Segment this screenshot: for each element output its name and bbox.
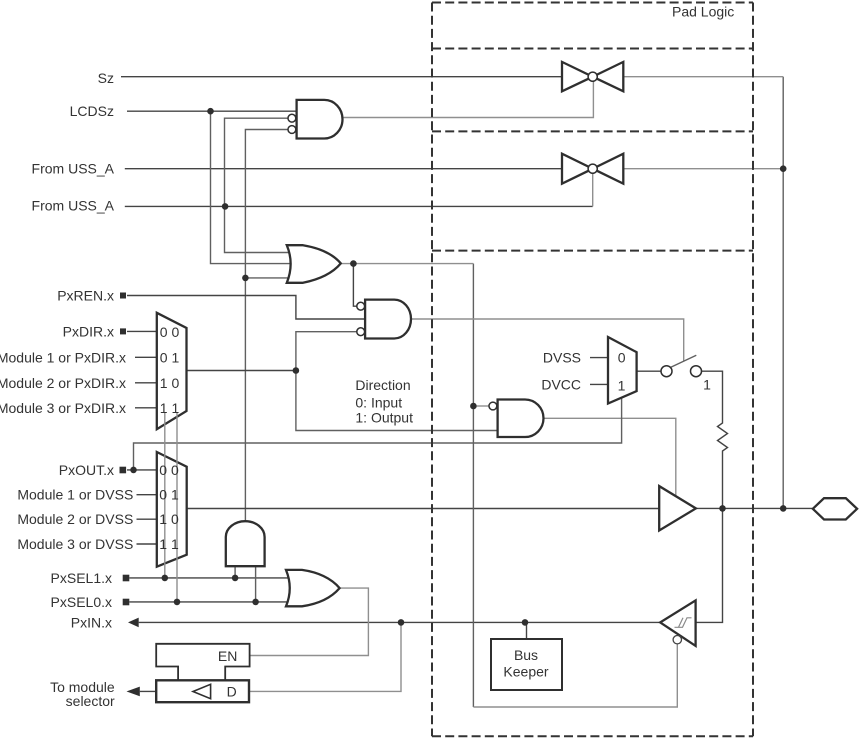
svg-text:1: 1	[703, 377, 711, 393]
svg-text:0 1: 0 1	[160, 350, 180, 366]
svg-text:1 0: 1 0	[160, 375, 180, 391]
svg-text:D: D	[227, 683, 237, 699]
svg-text:0 0: 0 0	[160, 324, 180, 340]
svg-text:0 1: 0 1	[159, 487, 179, 503]
svg-text:PxSEL1.x: PxSEL1.x	[51, 570, 112, 586]
svg-text:Module 2 or DVSS: Module 2 or DVSS	[17, 511, 133, 527]
svg-text:Module 3 or DVSS: Module 3 or DVSS	[17, 536, 133, 552]
svg-text:0 0: 0 0	[159, 462, 179, 478]
svg-text:From USS_A: From USS_A	[32, 198, 115, 214]
svg-text:DVCC: DVCC	[541, 376, 581, 392]
svg-text:1: Output: 1: Output	[355, 409, 413, 425]
svg-text:Sz: Sz	[98, 70, 114, 86]
svg-text:Direction: Direction	[355, 377, 410, 393]
svg-text:PxIN.x: PxIN.x	[71, 614, 112, 630]
svg-text:DVSS: DVSS	[543, 350, 581, 366]
svg-text:0: 0	[618, 350, 626, 366]
svg-text:1 0: 1 0	[159, 511, 179, 527]
svg-text:PxDIR.x: PxDIR.x	[63, 323, 114, 339]
svg-text:PxREN.x: PxREN.x	[57, 288, 114, 304]
svg-text:0: Input: 0: Input	[355, 395, 402, 411]
svg-text:EN: EN	[218, 648, 237, 664]
svg-text:PxOUT.x: PxOUT.x	[59, 462, 114, 478]
svg-text:selector: selector	[66, 693, 115, 709]
svg-text:Keeper: Keeper	[503, 664, 548, 680]
svg-text:1 1: 1 1	[159, 536, 179, 552]
svg-text:Pad Logic: Pad Logic	[672, 4, 734, 20]
svg-text:Module 2 or PxDIR.x: Module 2 or PxDIR.x	[0, 375, 126, 391]
svg-text:From USS_A: From USS_A	[32, 161, 115, 177]
svg-text:LCDSz: LCDSz	[70, 103, 114, 119]
svg-text:1: 1	[618, 377, 626, 393]
svg-text:Module 1 or DVSS: Module 1 or DVSS	[17, 487, 133, 503]
svg-text:Module 1 or PxDIR.x: Module 1 or PxDIR.x	[0, 349, 126, 365]
svg-text:1 1: 1 1	[160, 400, 180, 416]
svg-text:Module 3 or PxDIR.x: Module 3 or PxDIR.x	[0, 400, 126, 416]
svg-text:Bus: Bus	[514, 647, 538, 663]
svg-text:PxSEL0.x: PxSEL0.x	[51, 594, 112, 610]
